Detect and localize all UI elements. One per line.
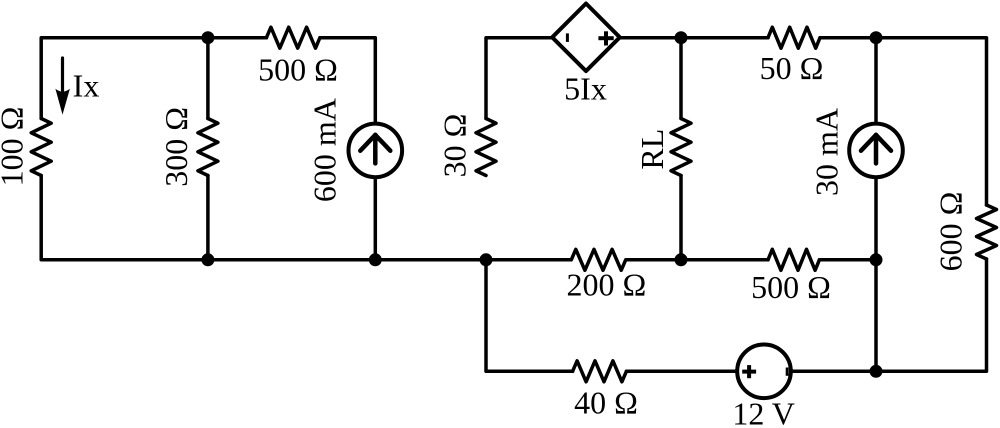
svg-text:40 Ω: 40 Ω	[574, 384, 638, 420]
svg-text:30 Ω: 30 Ω	[437, 114, 473, 178]
svg-text:Ix: Ix	[73, 68, 100, 104]
svg-text:500 Ω: 500 Ω	[751, 269, 831, 305]
svg-text:500 Ω: 500 Ω	[258, 52, 338, 88]
svg-text:12 V: 12 V	[732, 396, 795, 428]
svg-text:200 Ω: 200 Ω	[567, 266, 647, 302]
svg-text:300 Ω: 300 Ω	[158, 107, 194, 187]
svg-text:30 mA: 30 mA	[808, 108, 844, 196]
svg-text:50 Ω: 50 Ω	[760, 50, 824, 86]
svg-text:600 mA: 600 mA	[306, 98, 342, 202]
svg-text:100 Ω: 100 Ω	[0, 107, 29, 187]
svg-text:RL: RL	[634, 129, 670, 170]
svg-text:600 Ω: 600 Ω	[932, 192, 968, 272]
svg-text:5Ix: 5Ix	[564, 70, 607, 106]
